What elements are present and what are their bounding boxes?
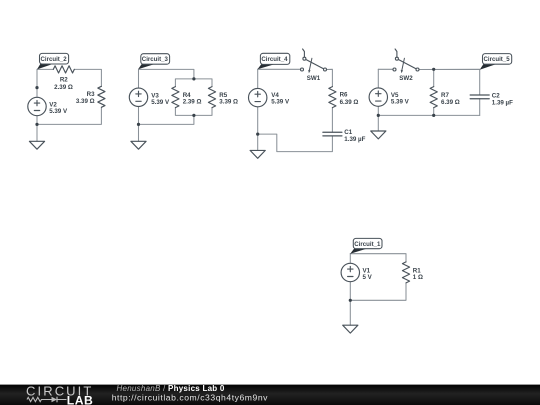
- svg-text:1.39 µF: 1.39 µF: [492, 100, 513, 107]
- svg-text:http://circuitlab.com/c33qh4ty: http://circuitlab.com/c33qh4ty6m9nv: [112, 392, 268, 402]
- svg-text:5.39 V: 5.39 V: [391, 99, 410, 106]
- svg-text:3.39 Ω: 3.39 Ω: [76, 98, 95, 105]
- svg-text:SW1: SW1: [307, 75, 321, 82]
- svg-text:5.39 V: 5.39 V: [271, 98, 290, 105]
- svg-text:Circuit_4: Circuit_4: [261, 56, 288, 63]
- svg-text:2.39 Ω: 2.39 Ω: [183, 99, 202, 106]
- svg-text:C1: C1: [344, 129, 352, 136]
- svg-text:R7: R7: [441, 92, 449, 99]
- svg-text:6.39 Ω: 6.39 Ω: [340, 99, 359, 106]
- svg-text:R6: R6: [340, 92, 348, 99]
- svg-text:1 Ω: 1 Ω: [413, 274, 423, 281]
- svg-text:Circuit_5: Circuit_5: [484, 56, 511, 63]
- svg-text:2.39 Ω: 2.39 Ω: [54, 84, 73, 91]
- svg-text:Circuit_2: Circuit_2: [41, 56, 68, 63]
- svg-text:C2: C2: [492, 92, 500, 99]
- svg-text:SW2: SW2: [399, 75, 413, 82]
- svg-text:5.39 V: 5.39 V: [151, 99, 170, 106]
- svg-text:R3: R3: [87, 91, 95, 98]
- svg-text:5 V: 5 V: [363, 274, 373, 281]
- svg-text:Circuit_1: Circuit_1: [354, 241, 381, 248]
- svg-text:5.39 V: 5.39 V: [49, 108, 68, 115]
- svg-text:1.39 µF: 1.39 µF: [344, 136, 365, 143]
- svg-text:6.39 Ω: 6.39 Ω: [441, 99, 460, 106]
- svg-text:Circuit_3: Circuit_3: [142, 56, 169, 63]
- svg-text:R2: R2: [60, 77, 68, 84]
- svg-text:LAB: LAB: [67, 394, 94, 405]
- svg-text:3.39 Ω: 3.39 Ω: [219, 99, 238, 106]
